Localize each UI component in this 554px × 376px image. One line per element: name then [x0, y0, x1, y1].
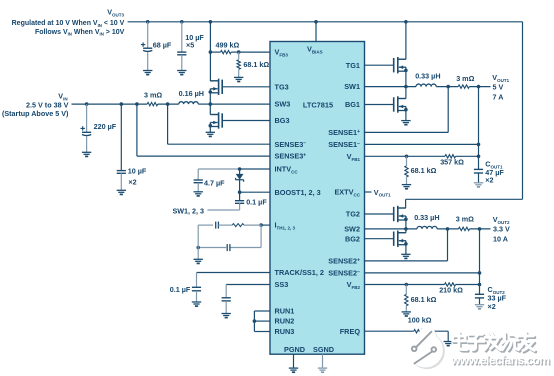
svg-text:210 kΩ: 210 kΩ [439, 286, 463, 295]
svg-text:499 kΩ: 499 kΩ [216, 41, 240, 50]
svg-text:SW2: SW2 [344, 225, 360, 234]
svg-text:Follows VIN When VIN > 10V: Follows VIN When VIN > 10V [35, 29, 125, 37]
svg-text:5 V: 5 V [493, 82, 504, 91]
svg-text:TG1: TG1 [346, 61, 360, 70]
svg-text:FREQ: FREQ [340, 327, 361, 336]
svg-text:3.3 V: 3.3 V [493, 225, 510, 234]
svg-text:3 mΩ: 3 mΩ [456, 215, 474, 224]
svg-text:SENSE1+: SENSE1+ [328, 128, 360, 137]
svg-text:×2: ×2 [485, 175, 493, 184]
svg-text:357 kΩ: 357 kΩ [440, 158, 464, 167]
svg-text:×2: ×2 [488, 302, 496, 311]
svg-text:68.1 kΩ: 68.1 kΩ [411, 166, 437, 175]
svg-text:0.1 µF: 0.1 µF [170, 285, 191, 294]
svg-text:68 µF: 68 µF [153, 41, 172, 50]
svg-text:TRACK/SS1, 2: TRACK/SS1, 2 [275, 268, 324, 277]
svg-text:BG3: BG3 [275, 116, 290, 125]
svg-text:68.1 kΩ: 68.1 kΩ [243, 60, 269, 69]
svg-text:10 µF: 10 µF [128, 167, 147, 176]
svg-text:RUN1: RUN1 [275, 307, 295, 316]
svg-text:VOUT3: VOUT3 [107, 8, 124, 18]
svg-text:SW1: SW1 [344, 82, 360, 91]
svg-text:SW1, 2, 3: SW1, 2, 3 [172, 207, 204, 216]
svg-text:0.1 µF: 0.1 µF [246, 197, 267, 206]
svg-text:BG2: BG2 [345, 234, 360, 243]
svg-text:0.16 µH: 0.16 µH [179, 89, 204, 98]
svg-text:VOUT2: VOUT2 [493, 215, 510, 225]
svg-text:100 kΩ: 100 kΩ [408, 316, 432, 325]
svg-text:×5: ×5 [186, 41, 194, 50]
svg-text:0.33 µH: 0.33 µH [414, 213, 439, 222]
svg-text:SS3: SS3 [275, 280, 289, 289]
svg-text:(Startup Above 5 V): (Startup Above 5 V) [2, 109, 69, 118]
svg-text:SGND: SGND [313, 345, 334, 354]
svg-text:×2: ×2 [128, 177, 136, 186]
svg-text:68.1 kΩ: 68.1 kΩ [411, 295, 437, 304]
svg-text:TG2: TG2 [346, 210, 360, 219]
svg-text:2.5 V to 38 V: 2.5 V to 38 V [26, 100, 69, 109]
svg-text:SENSE2+: SENSE2+ [328, 257, 360, 266]
svg-text:SENSE3+: SENSE3+ [275, 152, 307, 161]
svg-text:7 A: 7 A [493, 92, 504, 101]
svg-text:BG1: BG1 [345, 100, 360, 109]
svg-text:BOOST1, 2, 3: BOOST1, 2, 3 [275, 188, 321, 197]
svg-text:www.elecfans.com: www.elecfans.com [450, 353, 549, 367]
svg-text:220 µF: 220 µF [94, 122, 117, 131]
svg-text:RUN3: RUN3 [275, 327, 295, 336]
svg-text:SW3: SW3 [275, 100, 291, 109]
svg-text:LTC7815: LTC7815 [303, 100, 333, 109]
svg-text:Regulated at 10 V When VIN < 1: Regulated at 10 V When VIN < 10 V [12, 20, 125, 28]
svg-text:SENSE1−: SENSE1− [328, 140, 360, 149]
svg-text:0.33 µH: 0.33 µH [415, 71, 440, 80]
svg-text:TG3: TG3 [275, 82, 289, 91]
svg-text:PGND: PGND [284, 345, 305, 354]
svg-text:4.7 µF: 4.7 µF [204, 178, 225, 187]
svg-text:3 mΩ: 3 mΩ [144, 91, 162, 100]
svg-text:SENSE3−: SENSE3− [275, 140, 307, 149]
svg-text:SENSE2−: SENSE2− [328, 269, 360, 278]
svg-text:10 A: 10 A [493, 234, 508, 243]
svg-text:RUN2: RUN2 [275, 317, 295, 326]
svg-text:VOUT1: VOUT1 [374, 188, 391, 198]
svg-text:3 mΩ: 3 mΩ [456, 74, 474, 83]
